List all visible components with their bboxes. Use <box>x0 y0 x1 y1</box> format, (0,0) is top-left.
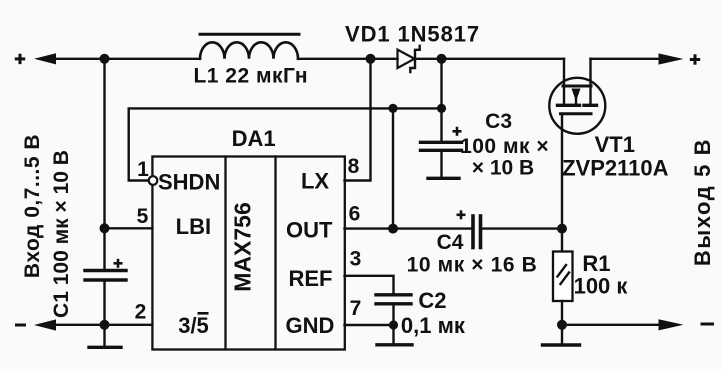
svg-text:VT1: VT1 <box>595 132 635 157</box>
svg-text:L1 22 мкГн: L1 22 мкГн <box>193 65 308 88</box>
svg-text:Вход 0,7...5 В: Вход 0,7...5 В <box>21 134 44 278</box>
svg-text:OUT: OUT <box>286 218 333 243</box>
svg-text:Выход 5 В: Выход 5 В <box>690 138 715 266</box>
svg-text:3/5: 3/5 <box>178 313 209 338</box>
svg-text:5: 5 <box>137 205 149 228</box>
svg-text:C1 100 мк × 10 В: C1 100 мк × 10 В <box>50 150 73 318</box>
svg-text:1: 1 <box>137 158 149 181</box>
svg-text:3: 3 <box>350 248 362 271</box>
svg-text:LX: LX <box>301 169 329 194</box>
svg-text:× 10 В: × 10 В <box>472 157 534 180</box>
svg-text:100 мк ×: 100 мк × <box>460 135 549 158</box>
svg-text:0,1 мк: 0,1 мк <box>401 313 466 338</box>
svg-text:2: 2 <box>135 301 147 324</box>
svg-text:MAX756: MAX756 <box>229 202 255 291</box>
svg-text:GND: GND <box>286 313 335 338</box>
svg-text:C2: C2 <box>418 288 446 313</box>
svg-text:100 к: 100 к <box>574 274 629 299</box>
svg-text:7: 7 <box>350 297 362 320</box>
svg-text:6: 6 <box>349 203 361 226</box>
svg-text:8: 8 <box>348 155 360 178</box>
svg-text:VD1 1N5817: VD1 1N5817 <box>345 22 480 47</box>
svg-text:R1: R1 <box>582 251 610 276</box>
svg-text:LBI: LBI <box>176 214 211 239</box>
svg-text:10 мк × 16 В: 10 мк × 16 В <box>407 254 538 277</box>
svg-text:C4: C4 <box>437 231 464 254</box>
svg-text:ZVP2110A: ZVP2110A <box>562 156 669 181</box>
svg-text:SHDN: SHDN <box>158 170 220 195</box>
svg-text:REF: REF <box>289 266 333 291</box>
svg-text:C3: C3 <box>485 110 512 133</box>
svg-text:DA1: DA1 <box>232 126 276 151</box>
